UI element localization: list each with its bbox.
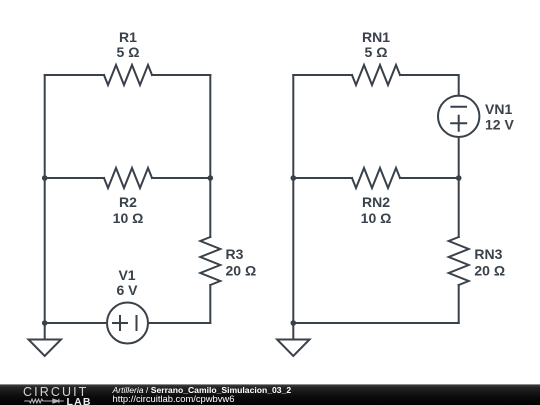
- node junction right middle right: [456, 175, 462, 181]
- svg-text:LAB: LAB: [67, 396, 92, 405]
- svg-text:20 Ω: 20 Ω: [474, 263, 505, 279]
- wire right circuit top left segment: [293, 74, 352, 76]
- wire right circuit bottom segment: [293, 322, 458, 324]
- wire left circuit right vertical top: [209, 75, 211, 237]
- wire left circuit middle right segment: [152, 177, 210, 179]
- resistor RN1: [352, 65, 400, 85]
- footer bar: [0, 384, 540, 405]
- resistor RN2: [352, 168, 400, 188]
- wire left ground stem: [44, 323, 46, 340]
- wire right circuit top right segment: [400, 75, 459, 96]
- voltage source VN1: [438, 96, 479, 137]
- svg-text:R2: R2: [119, 194, 137, 210]
- svg-text:10 Ω: 10 Ω: [361, 210, 392, 226]
- svg-text:12 V: 12 V: [485, 117, 514, 133]
- ground left: [29, 340, 62, 357]
- svg-text:10 Ω: 10 Ω: [113, 210, 144, 226]
- ground right: [277, 340, 309, 357]
- node junction left middle right: [208, 175, 214, 181]
- svg-text:20 Ω: 20 Ω: [226, 263, 257, 279]
- wire right circuit middle left segment: [293, 177, 352, 179]
- wire VN1 to middle node: [458, 137, 460, 178]
- node junction right bottom: [291, 320, 297, 326]
- wire right circuit right vertical top: [458, 178, 460, 237]
- resistor R3: [200, 237, 220, 285]
- svg-text:VN1: VN1: [485, 101, 512, 117]
- resistor R1: [104, 65, 152, 85]
- wire right circuit left vertical: [292, 75, 294, 323]
- wire left circuit middle left segment: [45, 177, 104, 179]
- svg-text:5 Ω: 5 Ω: [365, 44, 388, 60]
- svg-text:R3: R3: [226, 246, 244, 262]
- node junction left bottom: [42, 320, 48, 326]
- wire left circuit top right segment: [152, 74, 210, 76]
- svg-text:V1: V1: [118, 267, 135, 283]
- svg-text:5 Ω: 5 Ω: [117, 44, 140, 60]
- node junction left middle left: [42, 175, 48, 181]
- svg-text:RN1: RN1: [362, 29, 390, 45]
- svg-text:RN2: RN2: [362, 194, 390, 210]
- logo squiggle resistor and diode: [24, 399, 64, 404]
- resistor R2: [104, 168, 152, 188]
- voltage source V1: [107, 303, 148, 344]
- resistor RN3: [449, 237, 469, 285]
- wire left circuit top left segment: [45, 74, 104, 76]
- wire right circuit right vertical bottom: [458, 285, 460, 323]
- wire left circuit left vertical: [44, 75, 46, 323]
- wire left circuit bottom left segment: [45, 322, 107, 324]
- node junction right middle left: [291, 175, 297, 181]
- svg-text:6 V: 6 V: [116, 282, 138, 298]
- svg-text:RN3: RN3: [474, 246, 502, 262]
- svg-text:http://circuitlab.com/cpwbvw6: http://circuitlab.com/cpwbvw6: [113, 393, 235, 404]
- svg-text:R1: R1: [119, 29, 137, 45]
- wire left circuit right vertical bottom: [209, 285, 211, 323]
- wire right ground stem: [292, 323, 294, 340]
- wire right circuit middle right segment: [400, 177, 459, 179]
- wire left circuit bottom right segment: [149, 322, 211, 324]
